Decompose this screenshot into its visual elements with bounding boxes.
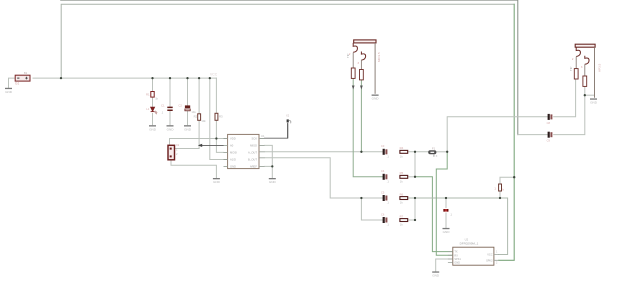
capacitor C5 row3 xyxy=(381,190,389,204)
wire arrow to IC pin2 xyxy=(201,144,224,146)
pin stubs right xyxy=(494,255,499,261)
svg-text:.1: .1 xyxy=(450,213,453,217)
svg-text:X2: X2 xyxy=(286,113,290,117)
wire cap node down to ground xyxy=(445,198,447,228)
svg-text:G1: G1 xyxy=(15,82,19,86)
wire battery to ground xyxy=(9,78,16,87)
sleeve line to ground xyxy=(374,43,376,94)
svg-text:1k: 1k xyxy=(400,223,403,227)
node VDD junction xyxy=(215,137,217,139)
resistor R2 xyxy=(194,114,207,123)
svg-text:C5: C5 xyxy=(381,190,385,194)
svg-text:A1/D: A1/D xyxy=(230,158,236,162)
battery G1 xyxy=(15,71,30,85)
wire row1-row2 join vertical xyxy=(414,152,416,177)
svg-text:L1: L1 xyxy=(146,107,150,111)
wire IC pin2R down to ground xyxy=(265,145,273,177)
svg-text:A0: A0 xyxy=(230,144,234,148)
svg-text:1k: 1k xyxy=(400,179,403,183)
body bar xyxy=(354,40,376,43)
capacitor C7 red xyxy=(443,209,452,217)
ground IC xyxy=(269,178,277,184)
node gnd junction right of IC xyxy=(271,165,273,167)
svg-text:1k: 1k xyxy=(400,154,403,158)
svg-text:GND: GND xyxy=(454,262,460,265)
ground connector xyxy=(213,178,221,184)
right jack X4 xyxy=(569,44,601,97)
tip stem pin xyxy=(575,57,577,69)
wire IC pin5R xyxy=(265,165,273,167)
wire out cap1 to right jack tip xyxy=(554,79,576,117)
resistor R6 row3 xyxy=(400,192,408,204)
svg-text:U1: U1 xyxy=(261,134,265,138)
node rail-battery xyxy=(60,77,62,79)
tip hook xyxy=(353,43,357,52)
wire IC pin1R to pin X2 xyxy=(265,124,288,138)
wire column to IC pin4 xyxy=(210,78,224,159)
node right jack switch xyxy=(584,94,586,96)
node jack ring on row1 xyxy=(360,151,362,153)
svg-text:TX: TX xyxy=(454,251,458,254)
svg-text:3: 3 xyxy=(581,66,583,69)
ground C1 col xyxy=(167,125,175,131)
resistor R4 row1 xyxy=(400,146,408,158)
capacitor C9 out bottom xyxy=(547,132,553,143)
wire out cap2 to right jack ring xyxy=(554,86,585,134)
capacitor C6 row4 xyxy=(381,212,389,226)
wire column C2 xyxy=(187,78,189,125)
capacitor C8 out top xyxy=(547,114,553,125)
wire VCC rail xyxy=(33,77,216,79)
pin stubs right xyxy=(259,139,265,167)
ring stem pin xyxy=(360,60,362,70)
node row3/row4 xyxy=(414,197,416,199)
ground LED col xyxy=(149,125,157,131)
wire node down to DFplayer pin2 xyxy=(436,152,453,256)
wire row2 R to DFplayer pin1 xyxy=(408,176,415,178)
body bar xyxy=(575,44,595,47)
op-amp U1 (main IC) xyxy=(224,134,265,169)
wire row3 R to junctions xyxy=(408,198,508,255)
svg-text:X: X xyxy=(436,154,438,158)
svg-text:1: 1 xyxy=(496,251,498,254)
node rail cols xyxy=(151,77,153,79)
left jack X3 xyxy=(346,40,381,94)
ground C2 col xyxy=(184,125,192,131)
svg-text:A_OUT: A_OUT xyxy=(248,151,257,155)
wire DFplayer pin3 to ground xyxy=(436,259,453,271)
capacitor C3 row1 xyxy=(381,144,389,158)
svg-text:TIP: TIP xyxy=(569,67,573,71)
svg-text:1k: 1k xyxy=(400,201,403,205)
svg-text:MOSI: MOSI xyxy=(230,151,237,155)
svg-text:MIC3.5: MIC3.5 xyxy=(377,52,381,62)
wire VDD net xyxy=(170,139,224,146)
resistor R8 xyxy=(494,184,504,191)
svg-text:SPK2: SPK2 xyxy=(486,259,493,262)
fuse F1 (stadium) xyxy=(428,146,437,158)
svg-text:k: k xyxy=(503,187,505,191)
svg-text:C6: C6 xyxy=(381,212,385,216)
wire jack ring drop xyxy=(360,80,362,152)
wire column R2 to connector xyxy=(175,78,199,148)
ring hook xyxy=(361,52,365,61)
resistor R1 xyxy=(146,92,159,101)
capacitor C4 row2 xyxy=(381,169,389,183)
wire IC pin4R to row3 xyxy=(265,158,383,198)
svg-text:GND: GND xyxy=(230,165,236,169)
wire column R3 to VDD node xyxy=(216,78,223,152)
svg-text:C3: C3 xyxy=(381,144,385,148)
svg-text:C1: C1 xyxy=(161,104,165,108)
svg-text:10u: 10u xyxy=(191,110,196,114)
svg-text:VDD: VDD xyxy=(230,137,236,141)
wire resistor R8 net xyxy=(500,135,547,198)
wire jack tip drop to row2 xyxy=(353,78,382,176)
svg-text:.1: .1 xyxy=(387,179,390,183)
svg-text:.1: .1 xyxy=(387,154,390,158)
svg-text:X1: X1 xyxy=(176,143,180,147)
ground cap C7 xyxy=(443,228,451,234)
wire row1 net from IC xyxy=(265,151,383,153)
svg-text:2: 2 xyxy=(349,53,351,56)
wire outer top loop net xyxy=(61,0,518,135)
svg-text:R5: R5 xyxy=(400,171,404,175)
wire node up to out cap1 xyxy=(447,117,547,152)
svg-text:R6: R6 xyxy=(400,192,404,196)
arrowhead tip drop xyxy=(352,86,355,90)
pin stubs left xyxy=(224,139,228,167)
resistor R7 row4 xyxy=(400,214,408,226)
svg-text:C4: C4 xyxy=(381,169,385,173)
svg-text:.1: .1 xyxy=(161,110,164,114)
wire row4 R to join xyxy=(408,198,415,220)
svg-text:R4: R4 xyxy=(400,146,404,150)
svg-text:C2: C2 xyxy=(178,103,182,107)
arrowhead xyxy=(198,144,202,147)
wire column C1 xyxy=(169,78,171,125)
svg-text:C9: C9 xyxy=(547,139,551,143)
svg-text:B1: B1 xyxy=(24,71,28,75)
sleeve line to ground xyxy=(594,47,596,97)
svg-text:MISO: MISO xyxy=(250,144,257,148)
wire column R1 LED xyxy=(152,78,154,125)
capacitor C1 xyxy=(161,104,173,115)
wire connector bottom to ground xyxy=(171,160,216,178)
svg-text:3: 3 xyxy=(358,62,360,65)
svg-text:SCK: SCK xyxy=(251,137,257,141)
wire stadium to node xyxy=(436,151,447,153)
ground left jack xyxy=(372,95,380,101)
svg-text:R1: R1 xyxy=(146,93,150,97)
svg-text:1: 1 xyxy=(494,186,496,190)
svg-text:F1: F1 xyxy=(432,146,436,150)
svg-text:B_OUT: B_OUT xyxy=(248,158,257,162)
svg-text:R7: R7 xyxy=(400,214,404,218)
svg-text:RX: RX xyxy=(454,254,458,257)
svg-text:DFR0299M_1: DFR0299M_1 xyxy=(460,241,479,245)
pin X2 test point xyxy=(286,113,291,138)
ring hook xyxy=(585,56,589,65)
svg-text:VCC: VCC xyxy=(487,254,492,257)
svg-text:2: 2 xyxy=(496,261,498,264)
wire row3-row4 tee xyxy=(361,198,382,220)
svg-text:AREF: AREF xyxy=(250,165,258,169)
capacitor C2 polarized xyxy=(178,103,196,114)
node R8 bottom xyxy=(499,197,501,199)
svg-text:VCC: VCC xyxy=(210,73,218,77)
svg-text:2: 2 xyxy=(176,152,178,156)
ground right jack xyxy=(590,98,598,104)
svg-text:R2: R2 xyxy=(194,115,198,119)
LED1 xyxy=(146,107,157,114)
arrowhead ring drop xyxy=(360,86,363,90)
node stadium out xyxy=(446,151,448,153)
resistor R3 xyxy=(215,113,223,120)
node row1/row2 xyxy=(414,151,416,153)
node green vcc xyxy=(513,176,515,178)
tip hook xyxy=(576,47,580,56)
svg-text:1k: 1k xyxy=(155,97,158,101)
ground DFplayer xyxy=(432,271,440,277)
wire inner top loop net xyxy=(61,4,514,78)
ground battery xyxy=(5,88,13,94)
svg-text:.1: .1 xyxy=(387,223,390,227)
resistor R5 row2 xyxy=(400,171,408,183)
svg-text:R3: R3 xyxy=(219,115,223,119)
svg-text:.1: .1 xyxy=(387,201,390,205)
wire right jack ring to sleeve xyxy=(585,94,595,96)
svg-text:C8: C8 xyxy=(547,121,551,125)
pin stubs left xyxy=(448,252,453,263)
tip stem pin xyxy=(352,53,354,68)
svg-text:10k: 10k xyxy=(201,119,206,123)
svg-text:2: 2 xyxy=(572,58,574,61)
svg-text:HP3.5: HP3.5 xyxy=(597,63,601,72)
ring stem pin xyxy=(584,64,586,76)
module U2 DFR0299 xyxy=(448,238,499,266)
node row3 tee xyxy=(360,197,362,199)
wire row1 R to stadium xyxy=(408,151,429,153)
node cap to gnd xyxy=(445,197,447,199)
connector X1 xyxy=(168,143,180,160)
